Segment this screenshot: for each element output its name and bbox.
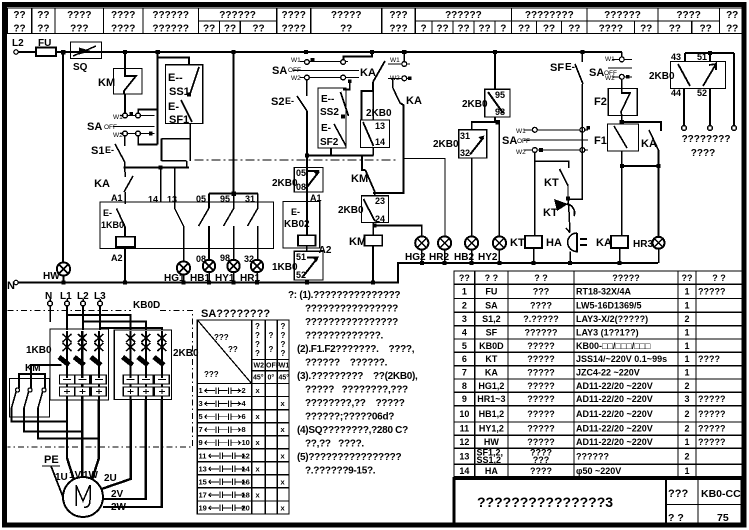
svg-text:????: ????	[530, 466, 552, 476]
wire SS1 feed	[158, 52, 189, 145]
lamp HB2	[454, 236, 478, 265]
svg-text:E-: E-	[285, 96, 294, 106]
svg-text:12: 12	[459, 437, 469, 447]
svg-text:E-: E-	[565, 62, 575, 73]
breaker coil 1KB0	[101, 208, 135, 283]
svg-text:1: 1	[684, 466, 689, 476]
svg-text:43: 43	[671, 52, 681, 62]
wire HW drop	[62, 52, 64, 263]
svg-text:14: 14	[375, 137, 385, 147]
svg-text:??: ??	[478, 24, 490, 35]
header table texts	[13, 10, 738, 35]
svg-text:??: ??	[13, 24, 25, 35]
svg-text:44: 44	[671, 88, 681, 98]
svg-text:A2: A2	[319, 245, 332, 256]
svg-text:2KB0: 2KB0	[338, 205, 364, 216]
timer delay symbol KT	[543, 199, 575, 232]
svg-text:S2: S2	[271, 96, 284, 108]
svg-text:2: 2	[684, 424, 689, 434]
svg-text:FU: FU	[485, 287, 497, 297]
svg-text:1: 1	[684, 437, 689, 447]
svg-text:8: 8	[242, 425, 246, 434]
svg-text:?: (1).???????????????: ?: (1).???????????????	[288, 290, 400, 301]
switch SQ	[71, 42, 102, 73]
svg-text:52: 52	[697, 88, 707, 98]
svg-text:??: ??	[203, 24, 215, 35]
svg-text:W2: W2	[605, 75, 615, 82]
svg-text:???: ???	[533, 287, 550, 297]
wire L2 to FU	[18, 51, 36, 53]
svg-text:13: 13	[459, 451, 469, 461]
wire HY2 feed	[498, 122, 500, 236]
relay contact KA3	[620, 120, 661, 237]
motor M	[55, 470, 127, 517]
terminal note text	[682, 134, 731, 159]
svg-text:x: x	[281, 451, 286, 460]
svg-text:3: 3	[199, 399, 203, 408]
breaker aux 2KB0 31-32	[433, 130, 487, 236]
boundary chain line	[195, 159, 399, 161]
svg-text:????: ????	[281, 24, 305, 35]
terminals N L1 L2 L3	[45, 291, 106, 322]
svg-text:2: 2	[462, 301, 467, 311]
svg-text:????????: ????????	[682, 134, 731, 145]
svg-text:HA: HA	[485, 466, 498, 476]
svg-text:LW5-16D1369/5: LW5-16D1369/5	[576, 301, 642, 311]
motor feed wires 1U 1V 1W	[67, 400, 99, 482]
HEADER TABLE	[8, 8, 746, 35]
svg-text:1: 1	[199, 386, 203, 395]
svg-text:?????: ?????	[698, 394, 726, 404]
svg-text:1: 1	[684, 354, 689, 364]
svg-text:2: 2	[684, 381, 689, 391]
svg-text:?: ?	[281, 331, 286, 340]
svg-text:2KB0: 2KB0	[173, 348, 199, 359]
contact 31 to HR1	[245, 194, 258, 261]
svg-text:x: x	[281, 399, 286, 408]
svg-text:10: 10	[459, 409, 469, 419]
svg-text:1V: 1V	[69, 470, 82, 481]
svg-text:OFF: OFF	[517, 138, 530, 145]
svg-text:????: ????	[698, 354, 720, 364]
wire to HG2	[375, 226, 422, 237]
svg-text:AD11-22/20 ~220V: AD11-22/20 ~220V	[576, 409, 653, 419]
svg-text:HW: HW	[484, 437, 499, 447]
svg-text:SA: SA	[485, 301, 498, 311]
svg-text:?: ?	[255, 349, 260, 358]
svg-text:? ?: ? ?	[712, 273, 726, 283]
svg-text:KA: KA	[360, 67, 376, 79]
svg-text:???????????????3: ???????????????3	[477, 494, 613, 510]
svg-text:x: x	[256, 464, 261, 473]
selector switch SA2	[272, 52, 372, 83]
svg-text:6: 6	[462, 354, 467, 364]
wire top bus	[63, 51, 622, 53]
svg-text:(4)SQ????????,?280 C?: (4)SQ????????,?280 C?	[297, 425, 408, 436]
svg-text:(5)????????????????: (5)????????????????	[297, 452, 401, 463]
svg-text:14: 14	[459, 466, 469, 476]
breaker 1KB0	[26, 329, 109, 400]
MOTOR SECTION	[8, 291, 200, 517]
svg-text:KA: KA	[596, 237, 612, 249]
wire SF1 output	[161, 124, 190, 168]
svg-text:HR1~3: HR1~3	[477, 394, 505, 404]
svg-text:E--: E--	[168, 72, 183, 84]
svg-text:75: 75	[717, 512, 729, 524]
svg-text:x: x	[256, 412, 261, 421]
thermal relay F2	[594, 79, 637, 115]
svg-text:KB0-CC: KB0-CC	[701, 488, 741, 500]
coil KA	[596, 236, 628, 265]
BOM texts	[459, 273, 726, 476]
svg-text:??: ??	[228, 345, 238, 354]
svg-text:2: 2	[242, 386, 246, 395]
svg-text:?????????????.: ?????????????.	[305, 331, 384, 342]
svg-text:3: 3	[462, 314, 467, 324]
svg-text:SQ: SQ	[73, 62, 88, 73]
svg-text:SS1,2: SS1,2	[477, 455, 502, 465]
svg-text:????????????????: ????????????????	[305, 317, 398, 328]
svg-text:HB1,2: HB1,2	[479, 409, 505, 419]
svg-text:KA: KA	[94, 178, 110, 190]
svg-text:????????: ????????	[525, 10, 574, 21]
relay contact KA1	[360, 61, 385, 120]
wire SA1 feed from rail	[138, 110, 157, 145]
pin 13 contact to HG1	[167, 167, 184, 261]
svg-text:L1: L1	[60, 291, 72, 302]
svg-text:??: ??	[669, 24, 681, 35]
svg-text:1KB0: 1KB0	[101, 220, 124, 230]
svg-text:KM: KM	[98, 77, 115, 89]
svg-text:??: ??	[568, 24, 580, 35]
svg-text:HY2: HY2	[478, 252, 498, 263]
NOTES	[288, 290, 418, 477]
svg-text:HG1,2: HG1,2	[478, 381, 504, 391]
breaker aux 2KB0 23-24	[338, 196, 389, 224]
svg-text:??????: ??????	[576, 451, 609, 461]
breaker aux 2KB0 43-51-52	[649, 51, 736, 131]
svg-text:AD11-22/20 ~220V: AD11-22/20 ~220V	[576, 394, 653, 404]
svg-text:24: 24	[375, 214, 385, 224]
lamp HY2	[478, 236, 506, 265]
header table grid	[8, 8, 746, 34]
svg-text:E-: E-	[321, 123, 331, 134]
pushbutton box SS2 SF2	[318, 81, 350, 148]
svg-text:x: x	[256, 490, 261, 499]
svg-text:8: 8	[462, 381, 467, 391]
lamp HR3	[633, 237, 665, 263]
svg-text:???: ???	[533, 455, 550, 465]
svg-text:SA: SA	[502, 135, 517, 147]
relay contact KA (1KB0 branch)	[94, 172, 133, 204]
svg-text:SF: SF	[486, 328, 498, 338]
svg-text:?: ?	[255, 340, 260, 349]
svg-text:?: ?	[269, 345, 274, 354]
svg-text:KM: KM	[351, 173, 368, 185]
svg-text:KM: KM	[349, 236, 366, 248]
svg-text:2KB0: 2KB0	[366, 108, 392, 119]
rail from top bus to contact box	[233, 52, 235, 194]
svg-text:KT: KT	[544, 177, 559, 189]
svg-text:31: 31	[460, 131, 470, 141]
pushbutton S2	[271, 80, 307, 202]
svg-text:????????????????: ????????????????	[305, 304, 398, 315]
svg-text:F1: F1	[594, 135, 607, 147]
svg-text:N: N	[45, 291, 52, 302]
selector switch SA3	[502, 126, 590, 156]
svg-text:95: 95	[220, 194, 230, 204]
svg-text:? ?: ? ?	[668, 512, 684, 524]
svg-text:SA????????: SA????????	[201, 308, 270, 320]
svg-text:?: ?	[255, 331, 260, 340]
svg-text:??: ??	[459, 273, 470, 283]
svg-text:19: 19	[199, 503, 207, 512]
svg-text:SF2: SF2	[320, 137, 339, 148]
contactor coil KB02	[283, 202, 332, 256]
svg-text:????: ????	[111, 24, 135, 35]
svg-text:?: ?	[500, 24, 506, 35]
svg-text:???: ???	[389, 10, 407, 21]
svg-text:A2: A2	[111, 253, 123, 263]
svg-text:10: 10	[242, 438, 250, 447]
svg-text:11: 11	[199, 451, 207, 460]
svg-text:S1,2: S1,2	[482, 314, 501, 324]
fuse FU	[36, 38, 63, 56]
svg-text:1: 1	[684, 301, 689, 311]
svg-text:(3).????????? ??(2KB0),: (3).????????? ??(2KB0),	[297, 371, 418, 382]
svg-text:? ?: ? ?	[534, 273, 548, 283]
svg-text:??????: ??????	[152, 24, 189, 35]
svg-text:????: ????	[530, 301, 552, 311]
svg-text:????: ????	[281, 10, 305, 21]
svg-text:W2: W2	[291, 75, 301, 82]
SA contact rows	[199, 386, 286, 512]
svg-text:12: 12	[242, 451, 250, 460]
svg-text:?.?????: ?.?????	[523, 314, 559, 324]
svg-text:S1: S1	[91, 145, 104, 157]
contactor contact KM2	[351, 170, 375, 196]
breaker aux 2KB0 95-98	[462, 52, 510, 130]
svg-text:?????: ?????	[527, 437, 555, 447]
svg-text:???: ???	[214, 333, 229, 342]
svg-text:20: 20	[242, 503, 250, 512]
wire feed bus inside box	[209, 193, 258, 195]
svg-text:RT18-32X/4A: RT18-32X/4A	[576, 287, 632, 297]
svg-text:?????: ?????	[527, 354, 555, 364]
selector rows SA (KA column)	[388, 52, 412, 82]
svg-text:????: ????	[111, 10, 135, 21]
pin 14 wire	[148, 167, 161, 204]
svg-text:x: x	[281, 503, 286, 512]
svg-text:0°: 0°	[268, 374, 275, 382]
contactor contact KM	[98, 52, 142, 116]
svg-text:??????: ??????	[604, 10, 641, 21]
svg-text:1KB0: 1KB0	[26, 345, 52, 356]
auxiliary contact box 1KB0/lamps	[100, 202, 274, 249]
svg-text:W1: W1	[516, 128, 526, 135]
svg-text:1: 1	[684, 368, 689, 378]
svg-text:OFF: OFF	[104, 124, 117, 131]
svg-text:AD11-22/20 ~220V: AD11-22/20 ~220V	[576, 437, 653, 447]
svg-text:95: 95	[495, 90, 505, 100]
svg-text:?: ?	[281, 340, 286, 349]
lamp HR1	[240, 254, 263, 284]
svg-text:SA: SA	[589, 67, 604, 79]
svg-text:?: ?	[281, 349, 286, 358]
svg-text:(2).F1.F2???????. ????,: (2).F1.F2???????. ????,	[297, 344, 415, 355]
svg-text:08: 08	[296, 182, 306, 192]
svg-text:KA: KA	[485, 368, 498, 378]
contact 95 to HY1	[220, 194, 234, 261]
svg-text:HA: HA	[546, 237, 562, 249]
SA TABLE	[197, 308, 289, 514]
svg-text:16: 16	[242, 477, 250, 486]
svg-text:x: x	[256, 386, 261, 395]
svg-text:????: ????	[676, 10, 700, 21]
breaker aux 1KB0 51-52	[272, 246, 323, 283]
breaker 2KB0	[114, 330, 199, 400]
svg-text:32: 32	[460, 148, 470, 158]
svg-text:7: 7	[199, 425, 203, 434]
svg-text:JSS14/~220V 0.1~99s: JSS14/~220V 0.1~99s	[576, 354, 667, 364]
svg-text:?: ?	[281, 322, 286, 331]
svg-text:E-: E-	[168, 101, 179, 113]
svg-text:2KB0: 2KB0	[462, 99, 488, 110]
TITLE BLOCK	[454, 479, 742, 526]
svg-text:????????,?? ?????: ????????,?? ?????	[305, 398, 405, 409]
svg-text:?????: ?????	[527, 394, 555, 404]
svg-text:??: ??	[726, 24, 738, 35]
wire L3 feed	[100, 306, 162, 330]
svg-text:??: ??	[457, 24, 469, 35]
contactor KM (power)	[10, 363, 62, 417]
svg-text:?????: ?????	[698, 424, 726, 434]
svg-text:??: ??	[436, 24, 448, 35]
SA table grid	[197, 320, 289, 514]
svg-text:2: 2	[684, 451, 689, 461]
svg-text:LAY3 (1??1??): LAY3 (1??1??)	[576, 328, 639, 338]
svg-text:1U: 1U	[55, 472, 68, 483]
svg-text:?????: ?????	[527, 381, 555, 391]
svg-text:AD11-22/20 ~220V: AD11-22/20 ~220V	[576, 424, 653, 434]
svg-text:??: ??	[252, 24, 264, 35]
lamp HG2	[405, 236, 428, 265]
timer contact KT	[535, 161, 569, 199]
svg-text:??: ??	[726, 10, 738, 21]
svg-text:E-: E-	[291, 207, 300, 217]
svg-text:W2: W2	[254, 363, 265, 370]
svg-text:??: ??	[640, 24, 652, 35]
svg-text:13: 13	[199, 464, 207, 473]
svg-text:??: ??	[682, 273, 693, 283]
svg-text:?????: ?????	[527, 424, 555, 434]
selector switch SA4	[589, 52, 632, 82]
SA header texts	[204, 322, 289, 382]
svg-text:??: ??	[543, 24, 555, 35]
wire L1 feed	[67, 306, 131, 330]
svg-text:?????: ?????	[698, 437, 726, 447]
svg-text:14: 14	[242, 464, 251, 473]
svg-text:17: 17	[199, 490, 207, 499]
svg-text:???: ???	[389, 24, 407, 35]
svg-text:??: ??	[699, 24, 711, 35]
svg-text:E-: E-	[103, 208, 112, 218]
svg-text:AD11-22/20 ~220V: AD11-22/20 ~220V	[576, 381, 653, 391]
svg-text:KA: KA	[406, 95, 422, 107]
svg-text:??: ??	[518, 24, 530, 35]
pushbutton SF (SFE)	[550, 52, 583, 201]
svg-text:W1: W1	[390, 57, 400, 64]
svg-text:?????: ?????	[331, 10, 362, 21]
thermal relay F1	[594, 115, 639, 235]
svg-text:?.??????9-15?.: ?.??????9-15?.	[305, 466, 376, 477]
svg-text:φ50 ~220V: φ50 ~220V	[576, 466, 621, 476]
svg-text:x: x	[281, 477, 286, 486]
svg-text:LAY3-X/2(?????): LAY3-X/2(?????)	[576, 314, 648, 324]
svg-text:SA: SA	[87, 121, 102, 133]
svg-text:2U: 2U	[104, 473, 117, 484]
svg-text:??: ??	[37, 10, 49, 21]
lamp HG1	[164, 261, 190, 284]
svg-text:5: 5	[199, 412, 203, 421]
svg-text:1: 1	[684, 328, 689, 338]
ground PE	[42, 454, 63, 497]
svg-text:?: ?	[421, 24, 427, 35]
junction after FU	[61, 50, 66, 55]
lamp HB1	[190, 254, 215, 284]
svg-text:W1: W1	[291, 57, 301, 64]
motor feed wires 2U 2V 2W	[102, 400, 162, 508]
svg-text:45°: 45°	[253, 374, 264, 382]
KM output wiring	[12, 408, 99, 439]
coil KT	[510, 152, 542, 265]
svg-text:HY1,2: HY1,2	[479, 424, 504, 434]
svg-text:05: 05	[296, 168, 306, 178]
node L2	[12, 38, 24, 54]
breaker aux 2KB0 13-14	[305, 108, 392, 170]
bus junction dots	[123, 50, 585, 54]
svg-text:JZC4-22 ~220V: JZC4-22 ~220V	[576, 368, 640, 378]
svg-text:??: ??	[13, 10, 25, 21]
svg-text:??: ??	[340, 24, 352, 35]
svg-text:4: 4	[242, 399, 247, 408]
svg-text:?????? ??????.: ?????? ??????.	[305, 358, 388, 369]
svg-text:KB0D: KB0D	[479, 341, 504, 351]
node N and bus	[7, 263, 658, 292]
svg-text:??,?? ????.: ??,?? ????.	[305, 439, 364, 450]
lamp HY1	[215, 253, 240, 284]
svg-text:L2: L2	[12, 38, 24, 49]
svg-text:E-: E-	[105, 145, 114, 155]
svg-text:F2: F2	[594, 96, 607, 108]
svg-text:???: ???	[668, 488, 688, 500]
svg-text:x: x	[281, 425, 286, 434]
svg-text:KT: KT	[485, 354, 497, 364]
svg-text:HR3: HR3	[633, 239, 653, 250]
relay contact KA2	[373, 78, 445, 236]
svg-text:??????: ??????	[525, 328, 558, 338]
svg-text:?????: ?????	[698, 287, 726, 297]
selector switch SA1	[87, 112, 155, 139]
svg-text:SF1: SF1	[169, 114, 189, 126]
svg-text:?: ?	[255, 322, 260, 331]
svg-text:11: 11	[460, 424, 470, 434]
svg-text:KT: KT	[510, 237, 525, 249]
dashed enclosure KB0D	[8, 300, 193, 447]
svg-text:1: 1	[684, 341, 689, 351]
svg-text:9: 9	[462, 394, 467, 404]
pushbutton S1	[91, 136, 189, 173]
